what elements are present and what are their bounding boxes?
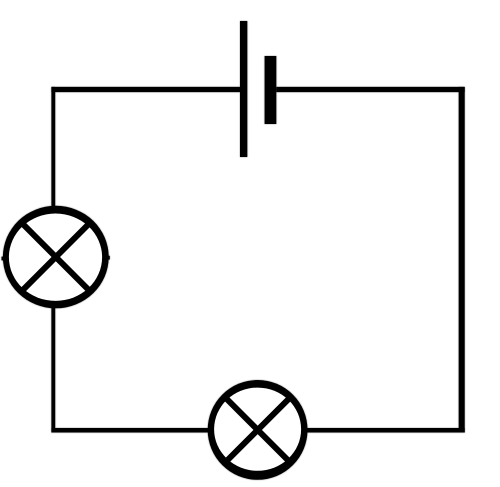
lamp L1 cross bbox=[20, 221, 91, 292]
wire top-right segment bbox=[276, 87, 464, 92]
lamp L2 circle bbox=[208, 380, 308, 480]
wire bottom horizontal bbox=[51, 428, 464, 433]
lamp L1 circle bbox=[3, 206, 109, 309]
wire right vertical bbox=[459, 87, 465, 433]
wire left vertical bbox=[51, 87, 55, 433]
battery B1 long plate (positive) bbox=[240, 21, 247, 157]
lamp L2 cross bbox=[223, 396, 292, 465]
battery B1 short plate (negative) bbox=[265, 56, 277, 124]
lamp L1 left lead stub bbox=[2, 257, 7, 261]
lamp L1 right lead stub bbox=[105, 256, 110, 260]
wire top-left segment bbox=[51, 87, 240, 92]
